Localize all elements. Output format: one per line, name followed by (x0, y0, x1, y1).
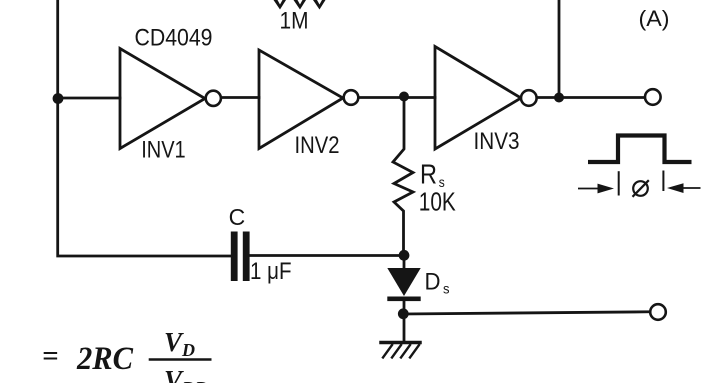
svg-text:R: R (420, 159, 437, 190)
svg-text:V: V (164, 327, 184, 357)
svg-text:CD4049: CD4049 (135, 24, 213, 51)
svg-text:D: D (181, 340, 195, 360)
svg-text:s: s (443, 281, 450, 297)
svg-text:(A): (A) (639, 6, 670, 31)
svg-text:10K: 10K (419, 187, 457, 217)
svg-text:INV3: INV3 (474, 128, 520, 155)
svg-text:1 μF: 1 μF (250, 258, 292, 285)
svg-text:D: D (425, 268, 441, 295)
svg-text:V: V (164, 365, 184, 383)
svg-text:=: = (42, 340, 59, 372)
svg-text:1M: 1M (280, 8, 309, 35)
svg-text:INV1: INV1 (141, 137, 186, 164)
svg-text:C: C (229, 204, 246, 230)
svg-text:INV2: INV2 (295, 132, 340, 159)
svg-text:2RC: 2RC (76, 341, 134, 377)
svg-text:DD: DD (181, 378, 208, 383)
